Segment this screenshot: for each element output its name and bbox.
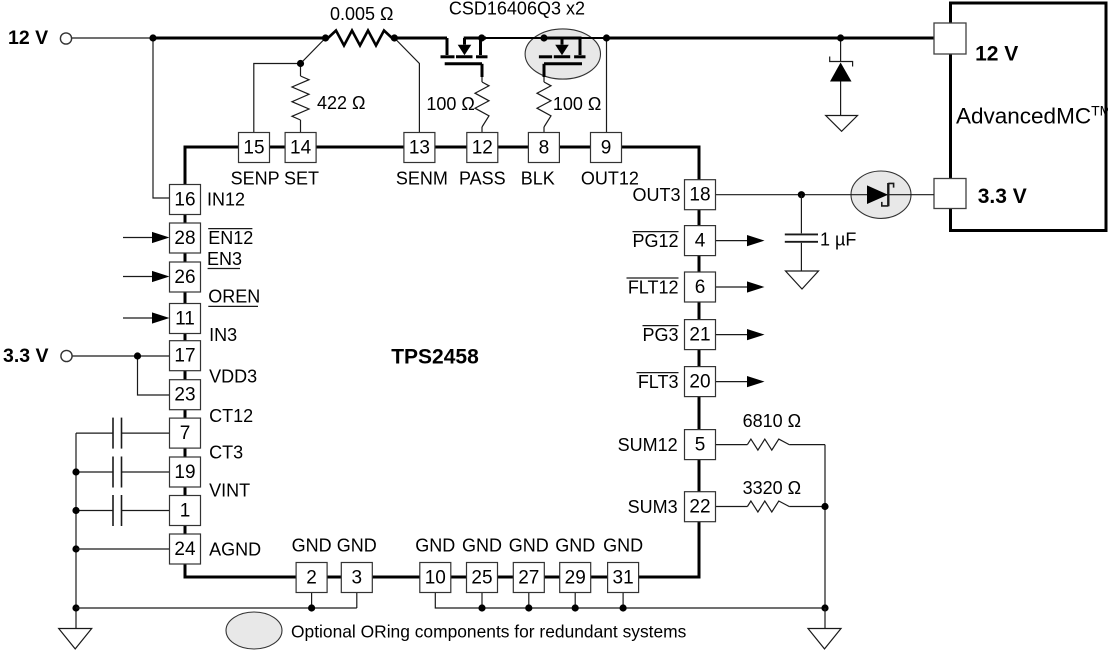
svg-text:FLT12: FLT12 [628, 277, 679, 297]
svg-text:100 Ω: 100 Ω [426, 94, 475, 114]
svg-text:SUM3: SUM3 [628, 497, 678, 517]
svg-text:16: 16 [174, 190, 195, 211]
svg-text:GND: GND [555, 536, 595, 556]
svg-text:SUM12: SUM12 [618, 435, 678, 455]
svg-text:20: 20 [689, 372, 710, 393]
svg-text:24: 24 [174, 539, 196, 560]
svg-text:IN12: IN12 [207, 190, 245, 210]
svg-text:GND: GND [415, 536, 455, 556]
svg-text:TPS2458: TPS2458 [391, 346, 479, 369]
svg-text:26: 26 [174, 267, 195, 288]
svg-text:PG3: PG3 [642, 325, 678, 345]
svg-text:4: 4 [695, 231, 706, 252]
svg-text:31: 31 [613, 568, 634, 589]
svg-text:11: 11 [175, 309, 195, 330]
svg-text:GND: GND [337, 536, 377, 556]
svg-text:12 V: 12 V [975, 43, 1018, 66]
svg-text:PG12: PG12 [632, 231, 678, 251]
svg-text:14: 14 [290, 138, 312, 159]
svg-text:SENM: SENM [396, 168, 448, 188]
svg-text:CSD16406Q3 x2: CSD16406Q3 x2 [449, 0, 585, 19]
svg-text:9: 9 [601, 138, 612, 159]
svg-text:12 V: 12 V [8, 27, 48, 49]
svg-text:13: 13 [409, 138, 430, 159]
svg-text:GND: GND [462, 536, 502, 556]
svg-text:8: 8 [539, 138, 550, 159]
svg-text:SET: SET [284, 168, 319, 188]
svg-text:12: 12 [472, 138, 493, 159]
svg-text:GND: GND [292, 536, 332, 556]
svg-text:SENP: SENP [231, 168, 280, 188]
svg-text:100 Ω: 100 Ω [553, 94, 602, 114]
svg-text:29: 29 [565, 568, 586, 589]
svg-text:5: 5 [695, 435, 706, 456]
svg-text:22: 22 [689, 497, 710, 518]
svg-text:BLK: BLK [521, 168, 555, 188]
svg-text:VINT: VINT [209, 481, 250, 501]
svg-text:3.3 V: 3.3 V [3, 345, 49, 367]
svg-text:1: 1 [180, 501, 191, 522]
svg-text:0.005 Ω: 0.005 Ω [330, 4, 394, 24]
svg-text:6: 6 [695, 277, 706, 298]
svg-text:2: 2 [306, 568, 317, 589]
svg-text:1 µF: 1 µF [820, 230, 856, 250]
svg-text:AdvancedMCTM: AdvancedMCTM [956, 103, 1108, 129]
svg-text:21: 21 [689, 325, 710, 346]
svg-text:27: 27 [518, 568, 539, 589]
svg-text:FLT3: FLT3 [638, 372, 679, 392]
svg-text:10: 10 [425, 568, 446, 589]
svg-text:IN3: IN3 [209, 325, 237, 345]
svg-text:GND: GND [509, 536, 549, 556]
svg-text:17: 17 [174, 346, 195, 367]
svg-text:Optional ORing components for: Optional ORing components for redundant … [291, 622, 687, 642]
svg-text:EN3: EN3 [207, 249, 242, 269]
svg-text:OUT3: OUT3 [632, 185, 680, 205]
svg-text:VDD3: VDD3 [209, 367, 257, 387]
svg-text:CT12: CT12 [209, 406, 253, 426]
svg-text:422 Ω: 422 Ω [317, 93, 366, 113]
svg-text:15: 15 [243, 138, 264, 159]
svg-text:25: 25 [471, 568, 492, 589]
svg-text:GND: GND [603, 536, 643, 556]
svg-text:OREN: OREN [208, 286, 260, 306]
svg-text:3: 3 [352, 568, 363, 589]
svg-text:EN12: EN12 [208, 228, 253, 248]
svg-text:19: 19 [174, 462, 195, 483]
svg-text:7: 7 [180, 423, 191, 444]
svg-text:OUT12: OUT12 [581, 168, 639, 188]
svg-text:18: 18 [689, 185, 710, 206]
svg-text:6810 Ω: 6810 Ω [743, 411, 802, 431]
svg-text:3.3 V: 3.3 V [978, 185, 1027, 208]
svg-text:AGND: AGND [209, 540, 261, 560]
svg-text:CT3: CT3 [209, 443, 243, 463]
svg-text:3320 Ω: 3320 Ω [743, 478, 802, 498]
svg-text:PASS: PASS [459, 168, 506, 188]
svg-text:23: 23 [174, 385, 195, 406]
svg-text:28: 28 [174, 228, 195, 249]
